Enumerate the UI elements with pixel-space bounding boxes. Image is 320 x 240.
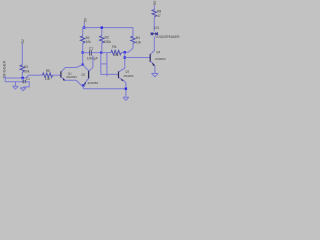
wire to R4 <box>28 74 42 76</box>
wire top rail <box>83 28 133 36</box>
svg-text:5V: 5V <box>84 17 88 22</box>
wire Q3 base <box>101 73 119 75</box>
transistor Q3 <box>119 68 134 83</box>
svg-text:LS1: LS1 <box>154 26 160 30</box>
wire R5 chamfer to Q3 collector node <box>125 44 133 53</box>
wire R1 to junction <box>21 73 23 79</box>
svg-text:LOUDSPEAKER: LOUDSPEAKER <box>156 35 180 39</box>
capacitor C1 wire left <box>83 52 90 54</box>
svg-text:Q3: Q3 <box>125 69 129 73</box>
svg-text:2N3053: 2N3053 <box>66 75 77 79</box>
svg-text:C1: C1 <box>89 46 93 50</box>
wire J3 diagonal to Q2 base <box>83 65 89 71</box>
capacitor C1 plates <box>89 50 91 55</box>
background <box>0 0 180 105</box>
wire 5V to R1 <box>21 44 23 65</box>
ground (trigger return) <box>12 86 18 89</box>
wire speaker to Q4 collector <box>153 37 155 50</box>
wire R4 to Q1 base <box>53 74 61 76</box>
svg-text:10k: 10k <box>45 77 51 81</box>
node junction trigger/R1/C2 <box>22 77 24 79</box>
resistor R1 (vertical pull-up) <box>20 65 24 73</box>
svg-text:10k: 10k <box>113 53 119 57</box>
svg-text:2N3053: 2N3053 <box>88 81 99 85</box>
svg-text:2N3053: 2N3053 <box>123 74 134 78</box>
svg-text:R6: R6 <box>112 45 116 49</box>
svg-text:100k: 100k <box>104 40 111 44</box>
wire chamfer to base row <box>26 75 28 78</box>
transistor Q1 <box>61 65 83 86</box>
svg-text:R5: R5 <box>46 69 50 73</box>
svg-text:Q4: Q4 <box>156 50 160 54</box>
svg-text:TRIGGER: TRIGGER <box>3 60 7 78</box>
svg-text:10k: 10k <box>24 69 30 73</box>
wire R2 to C1 row <box>82 43 84 52</box>
node junction J4 (emitters) <box>82 84 84 86</box>
node junction rail2/emitter <box>125 88 127 90</box>
transistor Q2 (mirrored) <box>81 56 98 85</box>
node junction J2 <box>100 51 102 53</box>
loudspeaker LS1 <box>151 26 181 39</box>
resistor R7 <box>152 10 156 18</box>
wire 5V stub <box>83 22 85 27</box>
wire trigger pin1 <box>5 77 23 79</box>
svg-text:1000µF: 1000µF <box>87 56 98 60</box>
wire output base <box>125 57 150 59</box>
resistor R5 (right rail, vertical) <box>132 28 134 37</box>
capacitor C2 plates (vertical) <box>22 80 24 83</box>
wire trigger port vertical <box>4 76 6 82</box>
svg-text:5V: 5V <box>21 39 25 44</box>
svg-text:10k: 10k <box>136 40 142 44</box>
svg-text:Q2: Q2 <box>81 73 85 77</box>
wire junction down to C2 left plate <box>22 78 24 80</box>
node junction J3 (Q1 collector) <box>82 64 84 66</box>
node junction rail/5V <box>83 26 85 28</box>
node junction J1 (R2/C1/down) <box>82 51 84 53</box>
node junction output takeoff <box>124 56 126 58</box>
resistor R3 (mid rail, vertical) <box>101 28 103 36</box>
resistor R6 (horizontal feedback) <box>107 52 111 54</box>
wire trigger pin2 <box>5 81 23 83</box>
transistor Q4 <box>150 50 166 66</box>
ground (Q4 emitter) <box>151 73 158 76</box>
svg-text:2N3053: 2N3053 <box>155 57 166 61</box>
wire cross branch <box>101 63 107 65</box>
wire 5V to R7 <box>153 5 155 9</box>
wire ground tap on trigger pin2 <box>14 82 16 86</box>
capacitor C1 wire right <box>92 52 107 54</box>
ground (C2) <box>20 87 26 91</box>
svg-text:10k: 10k <box>86 40 92 44</box>
svg-text:47: 47 <box>157 14 161 18</box>
resistor R4 (horizontal 10k) <box>42 73 52 77</box>
wire R7 to speaker <box>153 17 155 31</box>
node junction R6/R5/riser <box>124 51 126 53</box>
wire J4 down to rail2 <box>82 86 84 89</box>
wire C2 right plate to ground <box>23 82 29 87</box>
svg-text:5V: 5V <box>153 0 157 5</box>
wire bottom rail <box>83 88 126 90</box>
resistor R2 (left rail, vertical) <box>81 36 85 43</box>
wire Q4 emitter to ground <box>154 66 156 74</box>
wire V1: J2 down to base row <box>100 53 102 75</box>
svg-text:C1: C1 <box>26 77 30 81</box>
wire J1 down to J3 <box>82 53 84 65</box>
wire junction to chamfer <box>23 77 27 79</box>
wire Q3 collector riser <box>124 52 126 68</box>
wire Q3 emitter down <box>125 83 127 97</box>
ground (Q3 emitter) <box>123 97 129 100</box>
wire V2: J2 right corner down to base row <box>106 53 108 77</box>
